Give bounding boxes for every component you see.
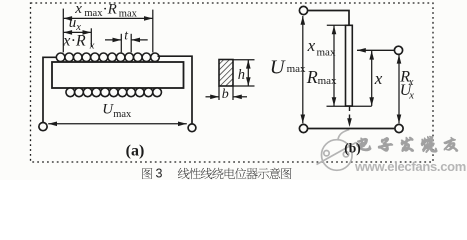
svg-text:max: max: [113, 109, 132, 120]
svg-text:max: max: [119, 8, 138, 19]
svg-text:R: R: [306, 67, 318, 87]
svg-text:max: max: [84, 8, 103, 19]
svg-text:x: x: [374, 69, 383, 88]
svg-text:x·R: x·R: [62, 33, 86, 50]
svg-text:R: R: [107, 2, 117, 18]
svg-text:x: x: [89, 40, 95, 51]
svg-text:max: max: [318, 75, 337, 87]
svg-text:max: max: [317, 47, 336, 59]
svg-text:u: u: [69, 15, 77, 31]
svg-text:www.elecfans.com: www.elecfans.com: [354, 159, 466, 174]
svg-text:(a): (a): [126, 143, 145, 160]
svg-text:b: b: [222, 87, 229, 102]
svg-text:(b): (b): [344, 141, 361, 156]
svg-text:max: max: [287, 63, 306, 75]
svg-text:3: 3: [156, 166, 163, 180]
svg-text:x: x: [75, 22, 81, 33]
svg-text:x: x: [307, 36, 316, 55]
svg-text:U: U: [270, 57, 286, 79]
svg-text:x: x: [408, 90, 414, 101]
svg-text:h: h: [238, 67, 245, 83]
